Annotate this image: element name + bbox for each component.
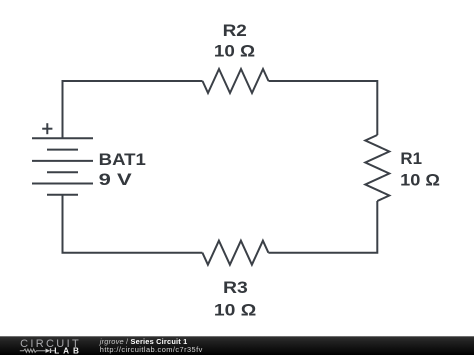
svg-text:BAT1: BAT1 [99, 150, 146, 169]
logo diode motif [46, 349, 51, 353]
wire bottom-left segment + battery negative lead [63, 195, 203, 253]
resistor R1 [365, 135, 389, 201]
battery BAT1 plate 3 (long) [32, 160, 93, 162]
battery BAT1 plate 2 (short) [47, 149, 78, 151]
battery polarity plus sign [42, 123, 52, 134]
battery BAT1 plate 4 (short) [47, 171, 78, 173]
svg-text:LAB: LAB [54, 347, 79, 355]
svg-text:R2: R2 [223, 21, 247, 40]
resistor R2 [203, 69, 269, 93]
svg-text:10 Ω: 10 Ω [214, 300, 256, 319]
svg-text:R3: R3 [223, 278, 248, 297]
battery BAT1 plate 1 (long, positive) [32, 137, 93, 139]
battery BAT1 plate 5 (long) [32, 183, 93, 185]
svg-text:10 Ω: 10 Ω [214, 41, 255, 60]
logo resistor zigzag motif [20, 349, 46, 352]
wire top-right segment + right lead down to R1 [269, 81, 378, 135]
wire R1 bottom lead + bottom-right wire segment [268, 201, 377, 253]
svg-text:http://circuitlab.com/c7r35fv: http://circuitlab.com/c7r35fv [100, 345, 203, 354]
svg-text:10 Ω: 10 Ω [400, 170, 440, 189]
svg-text:9 V: 9 V [99, 170, 133, 189]
resistor R3 [202, 241, 268, 265]
battery BAT1 plate 6 (short, negative) [47, 194, 78, 196]
svg-text:R1: R1 [400, 149, 422, 168]
wire battery positive lead + top-left wire segment [63, 81, 203, 138]
